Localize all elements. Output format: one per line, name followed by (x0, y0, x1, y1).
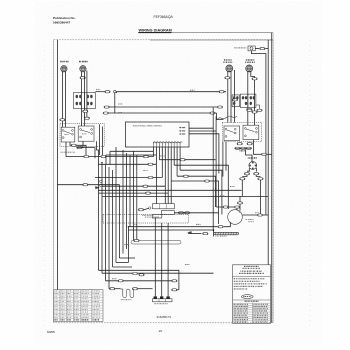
table cell r8c5 (82, 308, 88, 311)
connector y273 b (139, 274, 144, 276)
color code row line 4 (233, 309, 271, 311)
table cell r7c6 (93, 305, 100, 308)
label fuse 45A (240, 150, 245, 151)
table cell r2c3 (67, 292, 71, 295)
warning divider 1 (233, 275, 271, 277)
connector below LF switch (71, 144, 76, 146)
connector oven light (260, 47, 265, 49)
infinite switch LF box (61, 127, 75, 142)
wire RR switch drop left2 (222, 142, 224, 177)
switch terminal t6 (80, 136, 82, 138)
connector y159 (180, 159, 185, 161)
wire EOC right exit 1 (189, 127, 213, 129)
wire EOC pin run y181 right (171, 181, 218, 224)
wire EOC pin 1 drop (153, 147, 155, 157)
color code right 1 (253, 304, 267, 305)
infinite switch RF box (78, 126, 94, 141)
wire EOC pin run y151 (110, 150, 154, 152)
wire LF switch drop to y156 (65, 142, 67, 157)
warning text line 5 (234, 278, 265, 279)
table row line 5 (54, 302, 103, 304)
connector node 91 (105, 91, 110, 93)
table cell r4c1 (54, 297, 58, 300)
connector LR drop2 (252, 111, 257, 113)
color code left 1 (234, 304, 248, 305)
color code left 9 (234, 321, 248, 322)
table cell r10c5 (82, 313, 89, 316)
warning text line 8 (234, 286, 263, 287)
wire EOC pin run y193 (98, 192, 168, 194)
connector y156 c (143, 155, 148, 157)
switch terminal t2 (62, 137, 64, 139)
wire bundle out y267 (113, 266, 133, 268)
connector below RF switch (77, 146, 82, 148)
connector y176 (183, 175, 188, 177)
receptacle block left (74, 93, 96, 109)
switch terminal t3 (72, 130, 74, 132)
right switch terminal t8 (256, 131, 258, 133)
wire gauge label 9 (220, 194, 224, 197)
wire cluster to right (174, 212, 218, 214)
warning line3 (241, 271, 262, 272)
right switch terminal t4 (234, 132, 236, 134)
color code row line 6 (233, 313, 271, 315)
receptacle block RR (232, 95, 239, 107)
wire terminal pin 2 (161, 223, 163, 296)
label oven lamp (248, 157, 257, 158)
wire gauge label 4 (190, 89, 195, 92)
switch RF wiper (82, 130, 90, 132)
table cell r2c6 (93, 292, 99, 295)
fold mark dots left (44, 45, 46, 330)
dashed enclosure door switch (103, 215, 189, 224)
color code left 3 (234, 308, 248, 309)
color code left 8 (234, 319, 248, 320)
table footer cell 5 (82, 319, 89, 320)
color code row line 3 (233, 307, 271, 309)
wire gauge label 6 (133, 223, 137, 226)
table cell r5c1 (54, 300, 58, 303)
table footer cell 2 (61, 319, 65, 320)
table cell r10c1 (54, 313, 58, 316)
wire long run y196 (102, 195, 268, 197)
right switch terminal t2 (225, 136, 227, 138)
dashed enclosure left switches (60, 124, 104, 147)
table row line 3 (54, 297, 103, 299)
wire y155 elbow (105, 155, 107, 165)
junction dot 1 (98, 177, 99, 178)
wire gauge label 11 (143, 169, 148, 172)
connector cluster right b (184, 212, 189, 214)
surface unit RF (80, 66, 86, 72)
wire oven light connector to bus (265, 48, 268, 50)
wire LR drop to bus wire (254, 140, 257, 155)
warning header line2 (243, 268, 261, 269)
junction dot 5 (116, 92, 117, 93)
table cell r10c2 (61, 313, 65, 316)
connector run A right (217, 106, 222, 108)
connector left drop A (60, 119, 65, 121)
table cell r4c5 (82, 297, 89, 300)
wire bundle line 4 (108, 167, 110, 289)
wire EOC pin run y176 right (177, 176, 215, 207)
wire vertical v216 (215, 116, 217, 207)
table cell r1c5 (82, 289, 89, 292)
connector y164 (148, 163, 153, 165)
table cell r10c6 (93, 313, 100, 316)
wire motor bottom left (224, 222, 231, 226)
table cell r11c1 (54, 316, 57, 319)
table row line 9 (54, 312, 103, 314)
wire node vertical (114, 93, 116, 113)
table row line 11 (54, 318, 103, 320)
wire RR element lead 3 (234, 70, 236, 123)
warning line4 (239, 273, 264, 274)
switch terminal t1 (62, 130, 64, 132)
wire RR element lead 2 (230, 72, 232, 123)
receptacle left divider (84, 93, 86, 109)
wire bundle line 2 (101, 163, 103, 274)
receptacle LR terminals (242, 96, 255, 105)
wire mid drop a (133, 151, 135, 240)
connector y288 a (110, 288, 115, 290)
table cell r8c1 (54, 308, 58, 311)
connector on motor node wire (223, 206, 228, 208)
label terminal block (154, 303, 168, 304)
wire TOD to block (138, 288, 153, 290)
table cell r1c6 (93, 289, 100, 292)
connector broil loop (134, 239, 139, 241)
wire bundle out y280 (106, 280, 178, 282)
wire gauge label 13 (230, 185, 234, 188)
wire vertical v213 (212, 108, 214, 231)
connector bead row 1 (235, 147, 240, 149)
wire bundle line 6 (115, 147, 117, 263)
color code left 4 (234, 310, 248, 311)
wire gauge label 8 (112, 277, 116, 280)
switch LF internal label (65, 133, 69, 136)
wire motor top feed 2 (236, 207, 238, 210)
wire EOC pin run y186 (102, 185, 165, 187)
table cell r8c3 (67, 308, 71, 311)
switch terminal t7 (91, 129, 93, 131)
connector recept out a (247, 109, 252, 111)
table cell r4c4 (74, 297, 78, 300)
table cell r5c5 (82, 300, 89, 303)
wire run mid A (104, 106, 220, 108)
oven light box (248, 46, 255, 51)
wire lamp left down (242, 175, 247, 177)
wire cluster left link (144, 208, 149, 209)
connector RR lead (225, 77, 230, 79)
connector LR drop1 (247, 108, 252, 110)
table cell r7c3 (67, 305, 71, 308)
table cell r3c4 (74, 295, 79, 298)
header rule line (172, 32, 274, 34)
bundle left arrow connector (95, 186, 100, 189)
probe stub arrow (187, 231, 192, 233)
left frame edge solid (53, 40, 55, 323)
color code left 5 (234, 313, 248, 314)
warning divider 2 (233, 299, 271, 301)
table cell r6c1 (54, 303, 58, 306)
wire EOC pin 8 drop (173, 147, 175, 165)
table cell r9c1 (54, 311, 58, 314)
warning text line 9 (234, 288, 247, 289)
color code left 2 (234, 306, 248, 307)
connector y273 a (132, 272, 137, 274)
table cell r5c2 (61, 300, 64, 303)
label TOD (121, 299, 132, 300)
terminal block dividers (159, 299, 165, 302)
wire gauge label 2 (118, 103, 122, 106)
table cell r4c3 (67, 297, 71, 300)
bus wire upper run L1 (116, 91, 226, 93)
wire bundle out y262 (116, 262, 128, 264)
wire switch right drop 3 (102, 127, 104, 159)
fold mark dots right (309, 40, 311, 330)
table cell r1c3 (67, 289, 71, 292)
wire bundle line 9 (126, 153, 128, 249)
wire lamp left drop (241, 180, 243, 196)
table footer cell 6 (93, 319, 100, 320)
table cell r9c6 (93, 311, 100, 314)
right frame edge (272, 33, 274, 323)
receptacle RR terminals (233, 96, 239, 105)
connector LR to bus (261, 153, 266, 155)
switch RR wiper (227, 130, 234, 132)
connector run B left (103, 112, 108, 114)
connector y186 (143, 185, 148, 187)
table footer cell 1 (54, 319, 57, 320)
table row line 4 (54, 299, 103, 301)
label RR element wattage line2 (223, 62, 232, 63)
wire EOC pin 2 drop (155, 147, 157, 204)
switch terminal t4 (72, 133, 74, 135)
junction dot 4 (101, 162, 102, 163)
wire bundle out y258 (120, 257, 136, 259)
wire lamp left leg (247, 168, 249, 171)
wire gauge label 10 (255, 211, 259, 214)
wire EOC pin 3 drop (158, 147, 160, 160)
switch RF internal label (82, 132, 86, 135)
wire motor right to bus (242, 214, 268, 216)
relay box dividers (160, 204, 167, 209)
wire switch right drop 1 (97, 141, 99, 158)
warning box frame (233, 265, 271, 324)
wire y151 elbow (109, 151, 111, 165)
broil element loop (131, 240, 181, 244)
wire EOC pin 7 drop (170, 147, 172, 204)
wire recept b link (256, 105, 260, 109)
color code row line 2 (233, 304, 271, 306)
switch LF wiper (64, 131, 71, 133)
wire EOC right exit 3 (189, 134, 219, 174)
wire RR switch drop left (225, 142, 227, 171)
color code right 7 (253, 317, 267, 318)
surface unit LR (246, 65, 253, 72)
table row line 2 (54, 294, 103, 296)
warning text line 6 (234, 281, 260, 282)
wire EOC pin 9 drop (176, 147, 178, 176)
color code row line 1 (233, 302, 271, 304)
table row line 7 (54, 307, 103, 309)
wire terminal pin 1 (154, 218, 156, 296)
right outer bus wire N (271, 33, 273, 323)
wire elbow run B to switch (217, 113, 224, 120)
color code row line 7 (233, 315, 271, 317)
TOD loop shape (123, 289, 134, 298)
EOC bottom connector strip (153, 141, 183, 147)
table cell r8c6 (93, 308, 100, 311)
wire v216 to motor node (216, 206, 234, 208)
label motor line2 (248, 221, 254, 222)
warning header line1 (244, 266, 259, 267)
wire bundle line 10 (129, 155, 131, 227)
warning text line 7 (234, 283, 267, 284)
dashed enclosure right switches (222, 123, 261, 142)
table column line 5 (91, 290, 93, 322)
wire motor bottom run (128, 226, 217, 228)
wire bundle edge drop (127, 227, 129, 263)
color code right 2 (253, 306, 267, 307)
color code right 9 (253, 321, 267, 322)
motor note mark (246, 219, 248, 221)
connector motor right (257, 214, 262, 216)
oven sensor probe rod (214, 232, 239, 235)
connector run B right (210, 112, 215, 114)
label LF element wattage (60, 61, 68, 63)
connector cluster left (138, 209, 143, 211)
wire bundle line 3 (105, 165, 107, 281)
connector y156 b (101, 155, 106, 157)
junction ring a (100, 180, 103, 183)
surface unit LF (61, 66, 67, 72)
color code divider (251, 303, 253, 324)
table cell r6c2 (61, 303, 65, 306)
table cell r9c5 (82, 311, 89, 314)
connector probe stub (203, 232, 208, 234)
relay box flat (153, 204, 175, 209)
table cell r1c4 (74, 289, 79, 292)
table cell r2c4 (74, 292, 78, 295)
connector cluster right a (178, 212, 183, 214)
connector lamp right 2 (258, 178, 263, 180)
table row line 1 (54, 291, 103, 293)
label motor line1 (248, 219, 253, 220)
switch terminal t8 (91, 133, 93, 135)
motor circle (228, 210, 243, 225)
wire EOC pin run y156 (66, 156, 154, 158)
connector RF drop B (84, 117, 89, 119)
table cell r11c5 (82, 316, 89, 319)
wiring chart table frame (54, 290, 103, 322)
wire RF switch out (83, 148, 95, 159)
color code right 5 (253, 313, 267, 314)
table cell r7c4 (74, 305, 78, 308)
cluster label 2 (145, 217, 159, 218)
table cell r4c2 (61, 297, 65, 300)
wire sensor crossbar (213, 230, 215, 237)
table cell r11c4 (74, 316, 78, 319)
wire bundle line 8 (122, 150, 124, 254)
connector motor feed 1 (237, 202, 242, 204)
surface unit RR (226, 65, 233, 72)
scan noise overlay (0, 0, 1, 1)
table cell r10c3 (67, 313, 72, 316)
wire LF switch out (77, 145, 86, 156)
label oven light (234, 47, 246, 48)
table cell r5c6 (93, 300, 99, 303)
wire left bus run y184 (57, 184, 119, 186)
wire RF switch drop b (76, 141, 83, 147)
connector y280 a (118, 280, 123, 282)
wire EOC right exit 2 (189, 130, 216, 132)
wire bundle line 5 (112, 170, 114, 267)
twisted wire squiggle (217, 116, 237, 119)
EOC right pin marker 1 (179, 127, 185, 129)
wire long run y190 (99, 189, 242, 191)
right switch terminal t7 (256, 127, 258, 129)
wire bundle out y273 (102, 272, 214, 274)
component box C (152, 214, 161, 218)
connector y177 (148, 176, 153, 178)
approval oval (242, 295, 254, 299)
connector y181 (204, 180, 209, 182)
junction dot 2 (128, 226, 129, 227)
door switch contact circle (149, 207, 151, 209)
table cell r9c4 (74, 311, 78, 314)
wire oven light drop (252, 51, 266, 215)
right inner bus wire (267, 40, 269, 265)
wire LF element lead 2 (65, 72, 67, 128)
wire gauge label 1 (96, 88, 100, 91)
table cell r3c6 (93, 295, 100, 298)
wire bundle out y270 (99, 270, 179, 290)
wire lamp right drop (260, 180, 262, 215)
wire lamp right leg (255, 168, 257, 171)
right switch terminal t5 (245, 127, 247, 129)
wire EOC pin run y164 (99, 163, 157, 165)
color code left 7 (234, 317, 248, 318)
color code row line 5 (233, 311, 271, 313)
left bus wire L1 (56, 40, 58, 290)
title underline thick (138, 32, 171, 34)
EOC right pin marker 2 (179, 130, 185, 132)
table cell r3c5 (82, 295, 88, 298)
wire EOC pin run y165 right (174, 165, 228, 209)
wire RF element lead 1 (80, 72, 82, 126)
wire bundle out y288 (109, 288, 121, 290)
wire LF switch drop a (70, 142, 71, 145)
wire LR element lead 1 (247, 72, 249, 126)
wire broil run y230 (128, 229, 213, 231)
wire bead row link (235, 147, 252, 149)
wire EOC pin 5 drop (164, 147, 166, 204)
wire LF element lead 1 (61, 72, 63, 128)
connector bead row 3 (246, 147, 251, 149)
connector motor feed 2 (234, 206, 239, 208)
EOC right pin marker 3 (179, 133, 185, 135)
terminal block body (153, 299, 173, 302)
table cell r3c1 (54, 295, 57, 298)
diagram border frame (54, 40, 273, 323)
table row line 8 (54, 310, 103, 312)
table cell r7c5 (82, 305, 89, 308)
wire bundle line 1 (98, 158, 100, 270)
label LR element wattage line1 (246, 59, 255, 60)
connector on RF lead (80, 77, 85, 79)
